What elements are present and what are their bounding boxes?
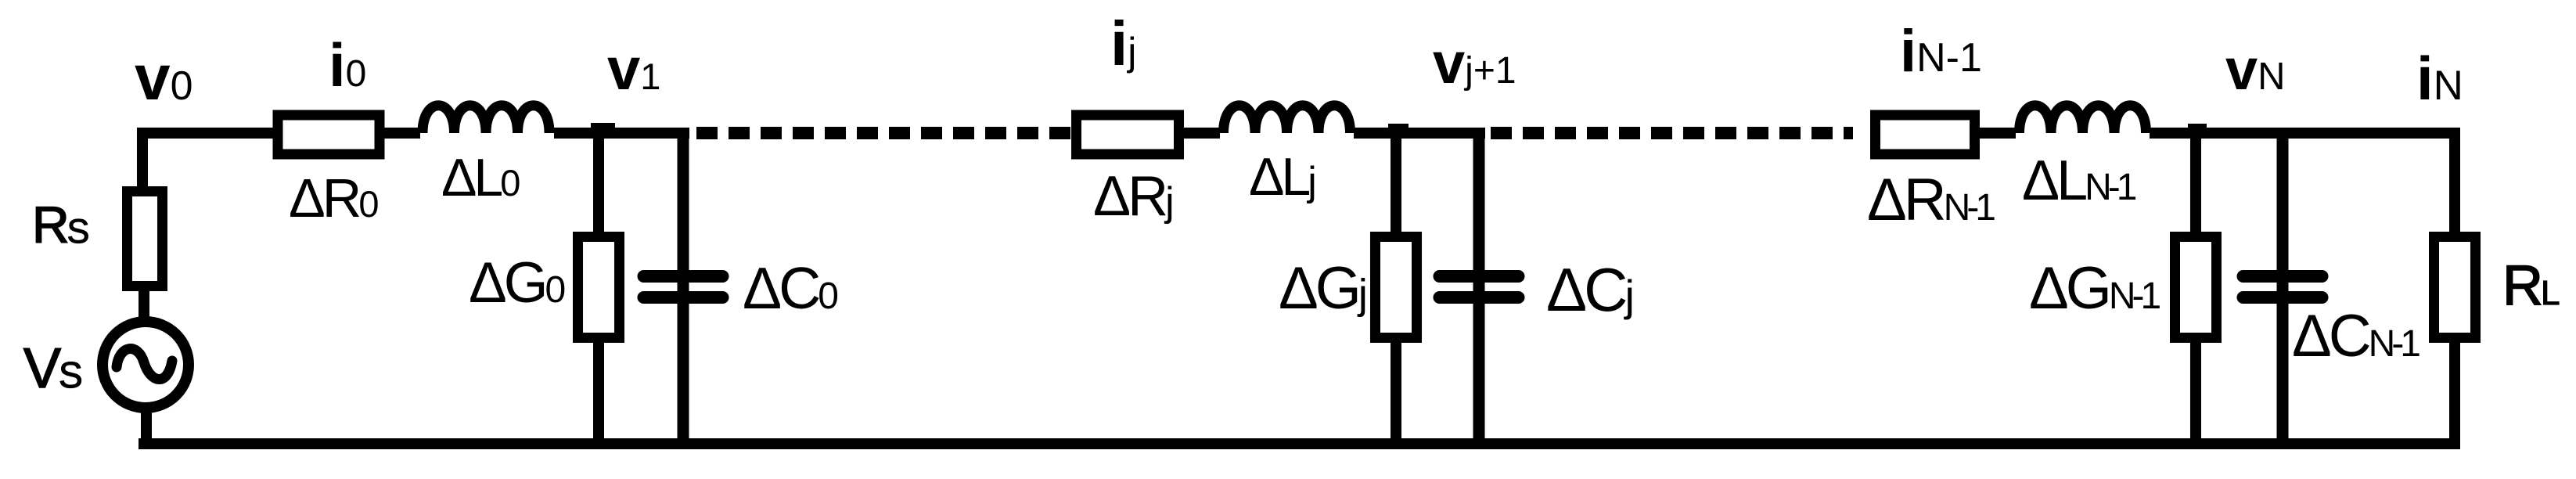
svg-text:ΔCN-1: ΔCN-1 [2292, 303, 2419, 369]
current iN label [2416, 44, 2463, 113]
label dRN-1 [1867, 167, 1995, 233]
wire Rs to Vs [139, 290, 149, 323]
conductance dGj [1376, 237, 1417, 338]
conductance dG0 branch wire lower [593, 341, 604, 449]
svg-text:ΔCj: ΔCj [1546, 255, 1632, 324]
dashed wire segment 2 [1491, 127, 1853, 139]
capacitor dCN-1 plates [2243, 276, 2322, 297]
label dCj [1546, 255, 1632, 324]
label Rs [32, 196, 88, 254]
svg-text:RS: RS [32, 196, 88, 254]
inductor dLN-1 [2020, 106, 2146, 133]
svg-text:ΔGj: ΔGj [1279, 255, 1365, 322]
node vj+1 label [1433, 31, 1516, 95]
svg-text:ΔGN-1: ΔGN-1 [2029, 255, 2160, 322]
label dGj [1279, 255, 1365, 322]
capacitor dC0 plates [644, 276, 723, 297]
node v0 label [135, 42, 193, 113]
conductance dGj branch wire lower [1391, 341, 1401, 449]
svg-text:vN: vN [2225, 37, 2286, 102]
svg-text:ΔC0: ΔC0 [743, 255, 837, 321]
label dCN-1 [2292, 303, 2419, 369]
svg-text:RL: RL [2502, 254, 2560, 317]
label dG0 [469, 251, 565, 315]
svg-text:ΔG0: ΔG0 [469, 251, 565, 315]
capacitor dCN-1 branch wire [2277, 128, 2289, 449]
svg-text:iN: iN [2416, 44, 2463, 113]
svg-text:ΔRN-1: ΔRN-1 [1867, 167, 1995, 233]
wire Lj to node vj+1 and Cj branch [1354, 128, 1485, 139]
source Vs [103, 322, 189, 408]
capacitor dCj plates [1440, 276, 1519, 297]
wire L0 to node v1 and C0 branch [554, 128, 689, 139]
label dGN-1 [2029, 255, 2160, 322]
inductor dL0 [423, 106, 549, 133]
label Vs [23, 337, 81, 400]
current ij label [1110, 9, 1136, 78]
label RL [2502, 254, 2560, 317]
conductance dGN-1 branch wire lower [2190, 341, 2201, 449]
label dLN-1 [2022, 149, 2136, 212]
svg-text:VS: VS [23, 337, 81, 400]
wire R0 to L0 [380, 128, 420, 139]
node v1 label [607, 36, 660, 103]
label dLj [1249, 147, 1315, 207]
svg-text:ΔLj: ΔLj [1249, 147, 1315, 207]
node v1 junction [591, 123, 615, 133]
load RL branch wire lower [2449, 341, 2460, 449]
svg-text:ΔRj: ΔRj [1093, 165, 1172, 228]
conductance dG0 branch wire upper [593, 125, 604, 233]
conductance dG0 [578, 237, 620, 338]
svg-text:iN-1: iN-1 [1900, 18, 1982, 85]
bottom wire [139, 438, 2460, 449]
node vN label [2225, 37, 2286, 102]
conductance dGN-1 [2175, 237, 2217, 338]
conductance dGj branch wire upper [1391, 125, 1401, 233]
current i0 label [329, 31, 366, 99]
svg-text:ΔR0: ΔR0 [289, 167, 378, 229]
load RL branch wire upper [2449, 128, 2460, 233]
label dC0 [743, 255, 837, 321]
svg-text:ΔLN-1: ΔLN-1 [2022, 149, 2136, 212]
node vj+1 junction [1388, 124, 1409, 133]
capacitor dCj branch wire [1473, 128, 1485, 449]
svg-text:vj+1: vj+1 [1433, 31, 1516, 95]
node vN junction [2188, 124, 2207, 133]
resistor dR0 [278, 115, 380, 154]
wire LN-1 across node vN to RL corner [2150, 128, 2455, 139]
label dL0 [441, 148, 520, 207]
wire top-left from v0 corner to R0 [137, 128, 275, 188]
svg-text:i0: i0 [329, 31, 366, 99]
wire Rj to Lj [1184, 128, 1220, 139]
label dRj [1093, 165, 1172, 228]
resistor dRj [1077, 115, 1179, 154]
svg-text:v0: v0 [135, 42, 193, 113]
wire Vs to bottom [141, 406, 152, 438]
svg-text:ij: ij [1110, 9, 1136, 78]
inductor dLj [1224, 106, 1351, 133]
wire RN-1 to LN-1 [1980, 128, 2016, 139]
label dR0 [289, 167, 378, 229]
conductance dGN-1 branch wire upper [2190, 125, 2201, 233]
capacitor dC0 branch wire [678, 128, 689, 449]
svg-text:ΔL0: ΔL0 [441, 148, 520, 207]
resistor Rs [128, 192, 163, 286]
resistor RL [2434, 237, 2476, 338]
svg-text:v1: v1 [607, 36, 660, 103]
dashed wire segment 1 [696, 127, 1070, 139]
current iN-1 label [1900, 18, 1982, 85]
resistor dRN-1 [1876, 115, 1975, 154]
